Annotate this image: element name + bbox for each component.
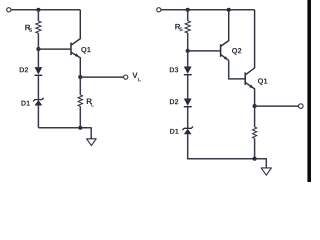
output terminal (right) (299, 104, 304, 109)
wire: between D3 and D2 (right) (187, 75, 189, 99)
wire: Q2 emitter to Q1 base (229, 60, 245, 79)
node: Q2 base node (right) (186, 49, 190, 53)
transistor Q2 (221, 10, 229, 61)
node: input / RS junction (left) (36, 8, 40, 12)
wire: diode chain top (right) (187, 51, 189, 67)
diode D2 (right) (184, 99, 192, 107)
transistor Q1 (left) (71, 10, 80, 77)
label Q2 (232, 48, 241, 55)
page edge bar (307, 0, 311, 182)
label Q1 (right) (258, 78, 267, 85)
node: Q2 collector junction (right) (227, 8, 231, 12)
wire: output lead (right) (255, 105, 299, 107)
wire: base wire to Q1 (left) (38, 48, 70, 50)
node: RS junction (right) (186, 8, 190, 12)
resistor RS (right) (185, 21, 190, 33)
resistor RS (left) (36, 21, 41, 33)
resistor RL (left) (78, 95, 82, 106)
wire: RS bottom lead (left) (37, 33, 39, 49)
label RL (left) (87, 99, 92, 105)
wire: diode chain top (left) (37, 49, 39, 67)
wire: between D2 and D1 (left) (37, 76, 39, 100)
wire: D1 to bottom rail (left) (37, 105, 39, 127)
wire: RS top lead (right) (187, 10, 189, 21)
wire: emitter resistor bottom lead (right) (254, 138, 256, 158)
transistor Q1 (right) (245, 10, 254, 106)
zener diode D1 (left) (33, 98, 44, 106)
wire: emitter resistor top lead (right) (254, 106, 256, 127)
diode D2 (left) (35, 67, 43, 75)
wire: top rail (right) (161, 9, 255, 11)
wire: RL top lead (79, 77, 81, 95)
wire: top rail (left) (11, 9, 80, 11)
zener diode D1 (right) (182, 127, 193, 135)
label D1 (right) (170, 129, 179, 134)
label D2 (left) (20, 67, 28, 72)
diode D3 (right) (184, 67, 192, 75)
ground (right) (261, 168, 271, 175)
node: VL node (78, 75, 82, 79)
wire: VL output lead (80, 76, 123, 78)
label D2 (right) (170, 99, 178, 104)
wire: bottom rail and ground stub (left) (38, 128, 91, 139)
node: load bottom node (left) (78, 126, 82, 130)
input terminal (left circuit) (7, 8, 11, 12)
wire: RL bottom lead (79, 106, 81, 128)
wire: D1 to bottom rail (right) (188, 134, 255, 159)
label RS (right) (175, 24, 180, 30)
label VL (132, 73, 137, 79)
wire: between D2 and D1 (right) (187, 107, 189, 129)
wire: RS top lead (left) (37, 10, 39, 21)
node: emitter output node (right) (253, 104, 257, 108)
node: base node (left) (36, 47, 40, 51)
ground (left) (87, 139, 97, 146)
label RS (left) (25, 25, 30, 31)
input terminal (right circuit) (157, 8, 161, 12)
wire: ground stub (right) (255, 159, 267, 168)
wire: RS bottom lead (right) (187, 33, 189, 51)
output terminal VL (124, 75, 128, 79)
label D1 (left) (21, 101, 30, 106)
wire: base wire to Q2 (188, 50, 220, 52)
label Q1 (left) (81, 47, 90, 54)
resistor (emitter, right, unlabeled) (253, 127, 257, 138)
node: bottom rail node (right) (253, 157, 257, 161)
label D3 (right) (170, 67, 178, 72)
